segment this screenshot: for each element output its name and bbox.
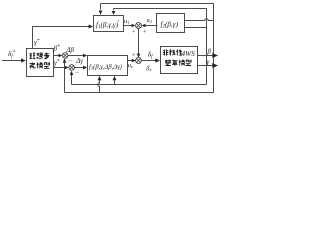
wire: gamma feedback up into junction B <box>71 74 73 84</box>
svg-text:δr: δr <box>146 64 151 73</box>
text 考模型 <box>30 62 50 68</box>
text 整车模型 <box>165 60 191 66</box>
summing junction 1 <box>136 23 142 29</box>
summing junction A (delta beta) <box>62 53 68 59</box>
svg-text:δf*: δf* <box>8 50 16 59</box>
arrow into f1 top (outer) <box>99 11 103 15</box>
wire: top inner feedback line (gamma) <box>114 8 207 10</box>
svg-text:−: − <box>68 58 72 65</box>
wire: delta gamma into f3 <box>75 67 84 69</box>
wire: f3 output u_e into junction 2 <box>128 60 133 62</box>
svg-text:f3(β,γ,Δβ,Δγ): f3(β,γ,Δβ,Δγ) <box>89 64 122 71</box>
svg-text:−: − <box>75 70 79 77</box>
svg-text:δf: δf <box>148 51 153 60</box>
wire: f2 input from gamma vertical <box>185 27 207 29</box>
wire: bottom beta feedback line <box>65 92 214 94</box>
text 非线性4WS <box>163 50 182 56</box>
wire: input delta_f* <box>2 60 22 62</box>
wire: delta_r into vehicle model <box>141 60 156 62</box>
block nonlinear 4WS vehicle model box <box>161 47 198 74</box>
svg-text:γ: γ <box>207 58 210 66</box>
wire: inner feedback drop into f1 top <box>113 9 115 11</box>
svg-text:ue: ue <box>128 62 133 69</box>
wire: bottom gamma feedback line <box>72 84 207 86</box>
block f2 box <box>157 14 185 33</box>
wire: inner feedback right vertical <box>206 9 208 85</box>
block f1 box <box>94 16 124 32</box>
dot over last gamma of f1 label <box>118 20 119 21</box>
wire: gamma* into summing junction B <box>54 67 66 69</box>
svg-text:β*: β* <box>53 44 61 53</box>
wire: outer feedback right vertical <box>213 4 215 93</box>
svg-text:Δγ: Δγ <box>75 58 83 65</box>
svg-text:γ*: γ* <box>54 58 60 67</box>
wire: u1 from f1 into junction 1 <box>124 25 132 27</box>
wire: beta* into summing junction A <box>54 55 59 57</box>
svg-text:f2(β,γ): f2(β,γ) <box>161 21 179 30</box>
summing junction 2 <box>136 58 142 64</box>
svg-text:u1: u1 <box>124 18 129 25</box>
wire: beta feedback up into junction A <box>64 62 66 93</box>
svg-text:+: + <box>131 29 135 36</box>
wire: beta feedback up into f3 bottom with hop over gamma line <box>98 79 100 92</box>
svg-text:4WS: 4WS <box>182 50 196 58</box>
svg-text:+: + <box>131 52 135 59</box>
wire: junction1 down to junction 2 <box>138 28 140 54</box>
wire: f2 input from beta vertical with hop over gamma vertical <box>185 19 214 21</box>
svg-text:u2: u2 <box>147 17 153 24</box>
svg-text:β: β <box>207 48 212 56</box>
block f3 box <box>88 56 128 76</box>
wire: gamma output <box>198 65 214 67</box>
svg-text:γ*: γ* <box>34 38 40 47</box>
wire: beta output <box>198 55 214 57</box>
wire: outer feedback drop into f1 top <box>100 4 102 10</box>
arrow into f1 top (inner) <box>112 11 116 15</box>
wire: u2 from f2 into junction 1 <box>145 25 158 27</box>
wire: gamma* feedforward up and right into f1 <box>33 27 90 49</box>
text 理想参 <box>30 53 50 59</box>
svg-text:+: + <box>142 29 146 36</box>
arrow into f1 left <box>89 25 93 29</box>
arrow into reference model <box>21 58 26 62</box>
wire: gamma feedback up into f3 bottom <box>114 79 116 84</box>
summing junction B (delta gamma) <box>69 65 75 71</box>
block ideal reference model box <box>27 49 54 77</box>
wire: top outer feedback line (beta) <box>101 3 214 5</box>
svg-text:f1(β,γ,γ): f1(β,γ,γ) <box>96 21 119 30</box>
svg-text:Δβ: Δβ <box>66 47 75 54</box>
wire: delta beta into f3 <box>68 55 84 57</box>
